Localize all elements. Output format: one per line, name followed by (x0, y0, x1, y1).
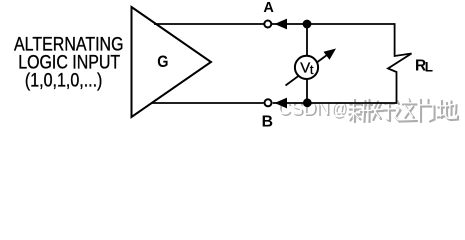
svg-text:@: @ (331, 98, 347, 119)
svg-text:B: B (262, 114, 273, 131)
svg-text:t: t (310, 62, 314, 77)
svg-text:L: L (425, 60, 433, 75)
svg-text:V: V (300, 60, 310, 77)
svg-text:G: G (157, 53, 168, 71)
svg-text:A: A (263, 0, 274, 16)
svg-text:(1,0,1,0,...): (1,0,1,0,...) (25, 71, 103, 92)
